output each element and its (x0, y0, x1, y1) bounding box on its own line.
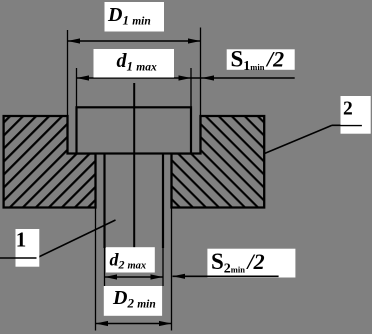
bolt shank right edge (162, 154, 164, 249)
extension line D2 left (95, 208, 97, 331)
svg-text:1: 1 (16, 228, 26, 252)
label box d1 max (94, 49, 175, 78)
extension line D1 right (200, 28, 202, 117)
extension line D1 left (67, 30, 69, 116)
S2/2 leader line (173, 275, 279, 277)
label box 2 (341, 96, 371, 134)
label box S1 min /2 (227, 49, 295, 70)
dimension line d1 max + S1/2 leader (77, 77, 295, 79)
bolt shank left edge (103, 154, 105, 249)
leader line to label 1 (tail) (0, 257, 37, 259)
extension line D2 right (171, 208, 173, 331)
dimension line d2 max (105, 276, 164, 278)
plate left half (part 2, hatched /) (4, 116, 96, 208)
label box S2 min /2 (207, 249, 295, 278)
label box d2 max (106, 247, 155, 272)
plate right half (part 2, hatched \) (172, 116, 265, 208)
leader line to label 1 (diagonal) (37, 220, 116, 258)
label box D1 min (105, 2, 165, 32)
label box 1 (16, 229, 40, 267)
svg-text:2: 2 (343, 99, 353, 120)
bolt head (part 1) (77, 107, 192, 153)
extension line d1 left (76, 68, 78, 107)
leader line to label 2 (264, 125, 332, 153)
dimension line D2 min (96, 323, 172, 325)
extension line d1 right (190, 68, 192, 107)
centerline (133, 83, 135, 249)
dimension line D1 min (68, 40, 201, 42)
label box D2 min (104, 286, 162, 316)
